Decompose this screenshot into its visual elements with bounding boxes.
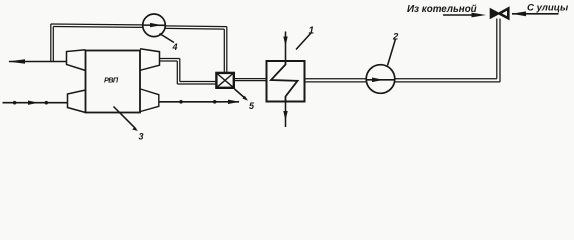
valve bowtie	[490, 9, 508, 19]
label РВП	[104, 75, 119, 84]
wire mixer to heater (double)	[234, 79, 267, 81]
wire fan loop top horizontal left segment (double)	[51, 24, 144, 27]
svg-text:4: 4	[172, 42, 178, 52]
wire arrow from boiler (points right into valve)	[443, 13, 486, 18]
leader to label 5	[235, 89, 249, 101]
heater zigzag coil	[271, 62, 298, 102]
leader to label 3	[114, 107, 139, 132]
label 5	[249, 101, 255, 111]
pump 2 circle	[366, 65, 395, 94]
wire fan loop top horizontal right segment (double)	[166, 26, 227, 29]
wire heater inlet top with arrow down	[283, 32, 287, 62]
svg-text:Из котельной: Из котельной	[407, 4, 477, 15]
wire fresh air line bottom-left with dots and arrow	[3, 101, 68, 105]
wire main pipe heater to elbow (double)	[305, 79, 501, 82]
wire exhaust line top-left with arrow out	[8, 59, 67, 64]
wire fan loop left vertical (double)	[51, 24, 54, 62]
label 2	[392, 32, 399, 43]
heater 1 box	[267, 61, 305, 102]
wire arrow from street (points left into valve)	[512, 11, 559, 16]
leader to label 2	[388, 39, 396, 66]
wire fan loop right vertical down to mixer (double)	[224, 27, 227, 73]
svg-text:3: 3	[139, 132, 144, 142]
mixing box 5 with X	[216, 73, 233, 88]
svg-text:2: 2	[392, 32, 399, 43]
duct trapezoid right-bottom	[141, 89, 159, 112]
wire duct vertical down (double)	[177, 59, 180, 85]
duct trapezoid left-top	[67, 50, 86, 71]
svg-text:1: 1	[309, 26, 315, 37]
label С улицы	[527, 2, 569, 13]
leader to label 1	[296, 33, 311, 50]
label 3	[139, 132, 144, 142]
duct trapezoid left-bottom	[68, 90, 86, 113]
wire duct horizontal to mixer (double)	[177, 82, 215, 85]
wire duct from preheater right-top (double)	[160, 59, 180, 62]
wire heated air line bottom-right with dots and arrow	[159, 100, 240, 104]
label 1	[309, 26, 315, 37]
wire heater outlet bottom with arrow down	[283, 102, 287, 128]
label Из котельной	[407, 4, 477, 15]
air preheater box РВП (3)	[86, 51, 141, 113]
wire riser to valve (double)	[497, 19, 500, 82]
fan 4 circle	[143, 14, 166, 37]
svg-text:РВП: РВП	[104, 75, 119, 84]
duct trapezoid right-top	[140, 49, 160, 71]
leader to label 4	[160, 34, 175, 43]
svg-text:С улицы: С улицы	[527, 2, 569, 13]
label 4	[172, 42, 178, 52]
